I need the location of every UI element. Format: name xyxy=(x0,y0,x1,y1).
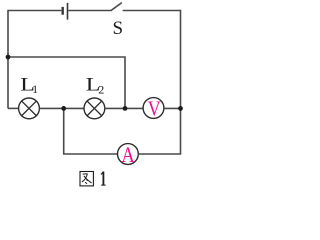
switch S blade (open) xyxy=(111,3,122,11)
battery B1 short plate (negative) xyxy=(62,7,64,15)
wire lamp row segment 1 xyxy=(8,107,19,109)
voltmeter V circle xyxy=(143,98,164,119)
svg-text:2: 2 xyxy=(98,83,104,97)
junction node between L2 and V xyxy=(123,106,128,111)
wire battery to switch xyxy=(68,10,110,12)
wire switch to top-right corner xyxy=(123,10,181,12)
lamp L1 cross xyxy=(22,101,37,116)
lamp L1 circle xyxy=(19,98,40,119)
svg-text:A: A xyxy=(121,143,135,167)
svg-text:V: V xyxy=(148,98,161,121)
wire V to right vertical xyxy=(164,107,181,109)
svg-text:1: 1 xyxy=(32,84,38,96)
junction node between L1 and L2 xyxy=(61,106,66,111)
wire ammeter row segment 1 xyxy=(63,153,118,155)
wire top-left horizontal to battery xyxy=(8,10,61,12)
wire middle vertical (node between lamps down to ammeter row) xyxy=(63,108,65,154)
svg-text:S: S xyxy=(113,18,124,39)
junction node right vertical at lamp row xyxy=(178,106,183,111)
caption 图 (Figure) drawn glyph xyxy=(80,172,93,186)
lamp L2 cross xyxy=(87,101,102,116)
wire left vertical xyxy=(7,10,9,109)
wire lamp row segment 2 xyxy=(39,107,84,109)
ammeter A circle xyxy=(118,144,139,165)
caption numeral 1 xyxy=(102,172,104,185)
wire parallel bypass: left node down to L2-V node xyxy=(8,57,125,108)
junction node left (top of parallel branch) xyxy=(6,55,11,60)
lamp L2 circle xyxy=(84,98,105,119)
wire lamp row segment 3 xyxy=(105,107,143,109)
wire ammeter row segment 2 xyxy=(138,153,181,155)
battery B1 long plate (positive) xyxy=(67,3,69,20)
wire right vertical xyxy=(180,10,182,154)
